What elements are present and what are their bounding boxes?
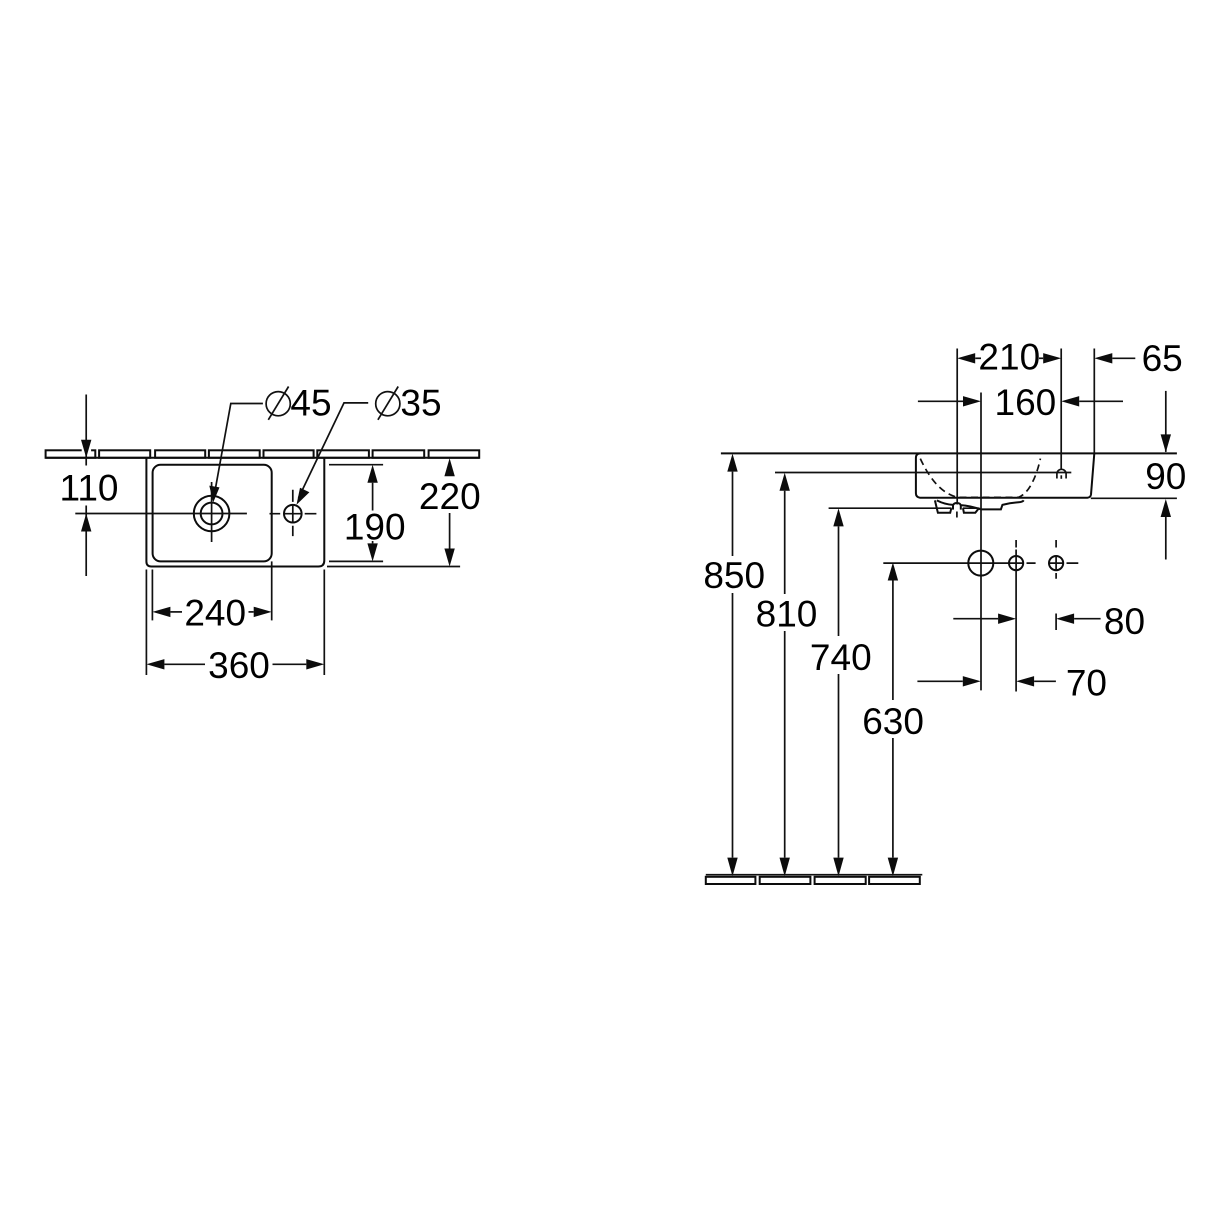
drain hole inner circle (201, 503, 223, 525)
floor hatch box 4 (869, 877, 920, 884)
drain hole outer circle (194, 496, 230, 532)
tap deck divider / 240 extension line (271, 561, 273, 620)
svg-text:210: 210 (978, 337, 1040, 378)
right hole vertical centerline (1055, 540, 1057, 630)
basin bottom edge extension (90 reference) (1091, 497, 1177, 499)
dimension 110 (wall to drain centerline) (60, 395, 119, 577)
wall hatch box 8 (429, 450, 480, 458)
siphon underside outline (937, 500, 1024, 509)
tap hole circle (top view) (284, 505, 302, 523)
leader arrowhead Ø45 (209, 486, 219, 503)
svg-text:70: 70 (1066, 663, 1107, 704)
siphon right fixing tab (963, 508, 979, 513)
siphon notch left wall (952, 505, 954, 510)
wall hatch box 2 (99, 450, 150, 458)
dimension 70 (917, 663, 1107, 704)
basin outer outline (top view) (146, 458, 324, 567)
svg-text:110: 110 (60, 467, 119, 508)
supply hole circle (right) (1049, 556, 1063, 570)
dimension 90 (1145, 391, 1186, 560)
floor line (706, 874, 923, 876)
svg-text:190: 190 (344, 507, 406, 548)
dimension 190 (bowl depth) (329, 465, 406, 562)
wall hatch box 1 (46, 450, 96, 458)
wall hatch box 3 (155, 450, 205, 458)
tap hole symbol (front view) (1057, 469, 1066, 478)
floor hatch box 1 (706, 877, 756, 884)
extension line: outlet center (210 left) (956, 349, 958, 505)
dimension 630 (fixing hole height) (862, 563, 924, 877)
tap hole centermark tick (1060, 475, 1062, 479)
dimension 240 (bowl width) (152, 570, 271, 634)
dimension 80 (953, 601, 1145, 642)
basin body (front view) (916, 453, 1094, 497)
dimension 220 (basin depth) (327, 458, 481, 566)
outlet reference line (740) (829, 507, 980, 509)
dimension 360 (basin width) (146, 570, 324, 686)
wall hatch box 7 (373, 450, 425, 458)
svg-text:740: 740 (810, 637, 872, 678)
dimension 810 (overflow height) (756, 473, 818, 877)
dimension 160 (918, 382, 1123, 423)
bowl profile (dashed, front view) (920, 459, 1040, 498)
wall hatch box 4 (209, 450, 260, 458)
tap hole horizontal centermark (270, 513, 317, 515)
leader arrowhead Ø35 (297, 488, 310, 505)
svg-text:240: 240 (184, 593, 246, 634)
floor hatch box 3 (815, 877, 866, 884)
svg-text:90: 90 (1145, 456, 1186, 497)
dimension 850 (wall rim height) (703, 454, 765, 877)
fixing hole row centerline (630 reference) (883, 562, 1078, 564)
svg-text:630: 630 (862, 701, 924, 742)
drain hole vertical centerline (211, 482, 213, 542)
extension line: tap hole center (210/160/65) (1060, 349, 1062, 470)
outlet hole circle (big) (968, 551, 993, 576)
bowl inner outline (top view) (153, 465, 272, 562)
svg-text:45: 45 (290, 383, 331, 424)
leader line for Ø45 (215, 404, 263, 493)
svg-text:65: 65 (1142, 338, 1183, 379)
extension line: big hole center (160 left) (980, 393, 982, 691)
dimension 210 (957, 337, 1061, 378)
overflow water line (810 reference) (775, 472, 1071, 474)
middle hole vertical centerline (1015, 540, 1017, 692)
label Ø35 (376, 383, 442, 424)
wall hatch box 6 (317, 450, 369, 458)
svg-text:360: 360 (208, 645, 270, 686)
wall hatch box 5 (264, 450, 314, 458)
svg-text:810: 810 (756, 594, 818, 635)
hole centerline (horizontal, 110 reference) (75, 513, 247, 515)
floor hatch box 2 (760, 877, 811, 884)
supply hole circle (middle) (1009, 556, 1023, 570)
leader line for Ø35 (299, 403, 369, 498)
wall face line (top view) (46, 457, 480, 459)
gap in hatch for 110 arrow (82, 449, 91, 452)
label Ø45 (266, 383, 331, 424)
svg-text:220: 220 (419, 476, 481, 517)
dimension 65 (1094, 338, 1182, 379)
outlet centerline dash (956, 512, 958, 518)
svg-text:850: 850 (703, 555, 765, 596)
svg-text:160: 160 (995, 382, 1057, 423)
extension line: basin right edge (65 right) (1093, 349, 1095, 454)
svg-text:80: 80 (1104, 601, 1145, 642)
wall / rim line (front view) (721, 452, 1177, 454)
dimension 740 (outlet height) (810, 508, 872, 876)
tap hole vertical centermark (292, 490, 294, 536)
svg-text:35: 35 (400, 383, 441, 424)
siphon notch right wall (960, 505, 962, 509)
siphon left edge and fixing tab (935, 500, 951, 512)
